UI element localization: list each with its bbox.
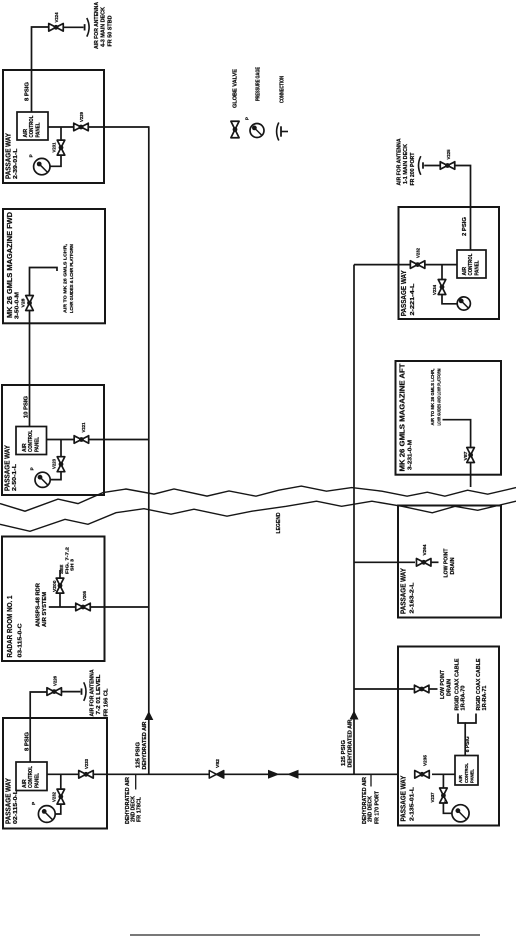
wire branch to V231 — [60, 127, 62, 141]
box passage way 2-135-01-L — [398, 647, 499, 826]
globe valve V264 — [416, 559, 431, 567]
svg-text:SH 3: SH 3 — [69, 559, 74, 571]
globe valve V229 — [74, 123, 89, 131]
svg-text:DRAIN: DRAIN — [450, 557, 456, 574]
svg-text:2-39-01-L: 2-39-01-L — [13, 148, 19, 179]
svg-text:AIR: AIR — [22, 779, 28, 788]
svg-text:2ND DECK: 2ND DECK — [368, 796, 374, 822]
svg-text:V229: V229 — [79, 112, 84, 122]
wire riser to V264 — [354, 561, 415, 563]
pressure gauge box3 — [35, 472, 50, 487]
globe valve V221 — [74, 436, 89, 444]
flow arrow right — [268, 770, 280, 779]
svg-text:AIR: AIR — [458, 774, 463, 783]
globe valve V224 — [49, 24, 64, 32]
box radar room no 1 — [2, 537, 105, 662]
globe valve V235 — [415, 771, 430, 779]
globe valve V205 — [76, 603, 91, 611]
wire V237 to gauge — [443, 803, 452, 814]
svg-text:RADAR ROOM NO. 1: RADAR ROOM NO. 1 — [5, 596, 14, 658]
break line upper — [0, 486, 516, 511]
svg-text:AIR FOR ANTENNA: AIR FOR ANTENNA — [396, 138, 402, 185]
svg-text:V82: V82 — [215, 759, 220, 768]
flow arrow up riser right — [350, 711, 359, 720]
air control panel box1 — [17, 112, 48, 140]
svg-text:V226: V226 — [53, 676, 58, 686]
wire V87 to break — [470, 462, 472, 487]
air control panel box5 — [16, 762, 47, 791]
wire branch to V234 — [441, 265, 443, 280]
svg-text:AIR FOR ANTENNA: AIR FOR ANTENNA — [94, 2, 100, 49]
svg-text:1R-RA-71: 1R-RA-71 — [482, 685, 488, 710]
svg-text:MK 26 GMLS MAGAZINE AFT: MK 26 GMLS MAGAZINE AFT — [398, 363, 407, 472]
svg-text:PANEL: PANEL — [474, 261, 480, 276]
wire ACP5 to valve V226 — [30, 692, 47, 762]
svg-text:CONTROL: CONTROL — [29, 116, 35, 138]
flow arrow up riser left — [144, 711, 153, 720]
svg-text:V232: V232 — [51, 792, 56, 802]
svg-text:1-1 MAIN DECK: 1-1 MAIN DECK — [403, 144, 409, 184]
svg-text:LOW POINT: LOW POINT — [440, 669, 446, 699]
wire V226 to connection — [62, 691, 81, 693]
svg-text:2-135-01-L: 2-135-01-L — [409, 786, 415, 821]
svg-text:8 PSIG: 8 PSIG — [25, 732, 31, 751]
svg-text:FR 200 PORT: FR 200 PORT — [410, 152, 416, 186]
wire panel to coax cable 71 — [465, 714, 476, 724]
svg-text:SEE: SEE — [59, 565, 64, 574]
svg-text:V205: V205 — [82, 591, 87, 601]
svg-text:PASSAGE WAY: PASSAGE WAY — [399, 775, 408, 821]
svg-text:8 PSIG: 8 PSIG — [25, 82, 31, 101]
globe valve V233 — [79, 771, 94, 779]
svg-text:AIR: AIR — [23, 129, 29, 138]
svg-text:CONTROL: CONTROL — [28, 766, 34, 788]
wire stub 2nd deck fr 178cl — [135, 774, 137, 789]
wire right riser 125 psig — [353, 265, 355, 775]
svg-text:MK 26 GMLS MAGAZINE FWD: MK 26 GMLS MAGAZINE FWD — [5, 212, 14, 318]
connection antenna 4-3 main deck — [85, 18, 90, 37]
svg-text:V87: V87 — [463, 451, 468, 460]
wire V200 upper stub — [59, 570, 61, 578]
svg-text:AIR SYSTEM: AIR SYSTEM — [42, 592, 48, 627]
svg-text:V231: V231 — [52, 142, 57, 152]
svg-text:PASSAGE WAY: PASSAGE WAY — [3, 445, 12, 491]
svg-text:CONTROL: CONTROL — [468, 254, 474, 276]
svg-text:CONTROL: CONTROL — [464, 763, 469, 783]
svg-text:LOW POINT: LOW POINT — [444, 548, 450, 578]
svg-text:V221: V221 — [81, 422, 86, 432]
box passage way 2-39-01-L — [3, 70, 104, 183]
svg-text:PASSAGE WAY: PASSAGE WAY — [399, 270, 408, 316]
svg-text:10 PSIG: 10 PSIG — [24, 396, 30, 418]
svg-text:02-115-0-L: 02-115-0-L — [13, 789, 19, 824]
svg-text:V28: V28 — [21, 298, 26, 307]
svg-text:DEHYDRATED AIR: DEHYDRATED AIR — [142, 721, 148, 769]
wire ACP1 to valve V224 — [32, 27, 50, 112]
connection antenna 7-2 01 level — [82, 682, 87, 701]
footer rule — [130, 934, 480, 936]
svg-text:2 PSIG: 2 PSIG — [462, 217, 468, 236]
svg-text:AIR TO MK 26 GMLS LCHR,: AIR TO MK 26 GMLS LCHR, — [430, 369, 435, 426]
svg-text:PASSAGE WAY: PASSAGE WAY — [399, 568, 408, 614]
wire V28 feed from box3 panel — [29, 308, 31, 427]
svg-text:PRESSURE GAGE: PRESSURE GAGE — [255, 67, 261, 101]
svg-text:DRAIN: DRAIN — [446, 679, 452, 696]
air control panel 2-135 — [455, 756, 478, 786]
wire branch to V232 box5 — [60, 774, 62, 789]
wire ACP1 output to drop line — [48, 126, 149, 128]
globe valve low point drain — [414, 685, 429, 693]
svg-text:2-50-1-L: 2-50-1-L — [12, 463, 18, 491]
svg-text:V235: V235 — [423, 755, 428, 766]
svg-text:AIR: AIR — [462, 267, 468, 276]
globe valve V225 — [440, 162, 455, 170]
svg-text:3-231-0-M: 3-231-0-M — [408, 440, 414, 470]
svg-text:V264: V264 — [422, 544, 427, 555]
globe valve V226 — [47, 688, 62, 696]
wire branch to V200 — [59, 593, 61, 607]
pressure gauge 2-135 — [452, 805, 469, 822]
svg-text:AIR: AIR — [22, 443, 28, 452]
svg-text:DEHYDRATED AIR: DEHYDRATED AIR — [348, 719, 354, 767]
svg-text:LCHR GUIDES & LCHR PLATFORM: LCHR GUIDES & LCHR PLATFORM — [69, 244, 75, 313]
wire V225 to connection — [424, 165, 440, 167]
svg-text:GLOBE VALVE: GLOBE VALVE — [233, 69, 239, 108]
wire V234 to gauge — [442, 294, 457, 304]
pressure gauge 2-221 — [457, 297, 470, 310]
svg-text:V233: V233 — [84, 759, 89, 769]
wire riser to box 2-221 panel — [354, 264, 457, 266]
svg-text:AIR FOR ANTENNA: AIR FOR ANTENNA — [90, 669, 96, 716]
connection antenna 1-1 main deck — [419, 156, 424, 175]
svg-text:LEGEND: LEGEND — [276, 512, 282, 533]
globe valve V232 — [410, 261, 425, 269]
svg-text:2-221-4-L: 2-221-4-L — [410, 283, 416, 316]
wire V224 to connection — [63, 26, 83, 28]
svg-text:FR 50 STBD: FR 50 STBD — [108, 15, 114, 46]
box passage way 2-221-4-L — [399, 207, 500, 319]
wire V223 to gauge — [50, 471, 61, 479]
svg-text:V223: V223 — [52, 459, 57, 469]
box passage way 02-115-0-L — [3, 718, 107, 829]
svg-text:125 PSIG: 125 PSIG — [341, 740, 347, 766]
globe valve V28 — [26, 296, 34, 311]
svg-text:1R-RA-70: 1R-RA-70 — [460, 685, 466, 710]
svg-text:PASSAGE WAY: PASSAGE WAY — [4, 778, 13, 824]
wire main 125 psig header — [47, 773, 398, 775]
svg-text:125 PSIG: 125 PSIG — [136, 742, 142, 768]
wire V28 to launcher stub — [30, 268, 58, 298]
svg-text:PANEL: PANEL — [34, 437, 40, 452]
svg-text:AIR TO MK 26 GMLS LCHR,: AIR TO MK 26 GMLS LCHR, — [63, 243, 69, 313]
svg-text:V237: V237 — [430, 792, 435, 802]
wire stub 2nd deck fr 170 port — [370, 774, 372, 786]
legend globe valve symbol — [231, 121, 239, 138]
wire low point drain stub — [430, 688, 438, 690]
svg-text:V225: V225 — [446, 149, 451, 159]
box mk 26 gmls magazine fwd — [3, 209, 105, 323]
wire branch to V237 — [442, 774, 444, 788]
svg-text:2-163-2-L: 2-163-2-L — [409, 582, 415, 614]
wire branch to V223 — [60, 440, 62, 458]
wire V235 to panel — [432, 773, 455, 775]
air control panel 2-221 — [457, 250, 486, 278]
svg-text:PANEL: PANEL — [34, 773, 40, 788]
air control panel box3 — [16, 427, 47, 455]
wire main riser 125 psig — [148, 126, 150, 774]
svg-text:7-2 01 LEVEL: 7-2 01 LEVEL — [96, 674, 102, 715]
svg-text:FR 178CL: FR 178CL — [136, 796, 142, 822]
pressure gauge box5 — [38, 806, 55, 823]
wire V264 stub — [432, 561, 439, 563]
svg-text:V232: V232 — [416, 248, 421, 258]
svg-text:V234: V234 — [432, 285, 437, 295]
globe valve V223 — [57, 457, 65, 472]
svg-text:LCHR GUIDES AND LCHR PLATFORM: LCHR GUIDES AND LCHR PLATFORM — [436, 368, 441, 425]
globe valve V87 — [467, 448, 475, 463]
svg-text:V224: V224 — [54, 12, 59, 22]
svg-text:PASSAGE WAY: PASSAGE WAY — [4, 133, 13, 179]
globe valve V232 box5 — [57, 789, 65, 804]
wire launcher stub to V87 — [443, 420, 471, 448]
globe valve V237 — [440, 788, 448, 803]
wire V232 to gauge box5 — [56, 804, 61, 814]
globe valve V234 — [438, 280, 446, 295]
svg-text:PANEL: PANEL — [470, 769, 475, 783]
svg-text:4-3 MAIN DECK: 4-3 MAIN DECK — [100, 7, 106, 47]
pressure gauge box1 — [34, 158, 50, 174]
wire low point drain branch — [354, 688, 414, 690]
svg-text:03-115-0-C: 03-115-0-C — [18, 623, 24, 658]
break line lower — [0, 501, 516, 531]
box mk 26 gmls magazine aft — [396, 361, 502, 475]
box passage way 2-50-1-L — [2, 385, 104, 495]
wire ACP221 to valve V225 — [455, 166, 470, 251]
svg-text:FR 170 PORT: FR 170 PORT — [374, 790, 380, 824]
legend pressure gauge symbol — [250, 124, 264, 138]
wire ACP3 output to riser — [47, 439, 149, 441]
svg-text:AN/SPS-48 RDR: AN/SPS-48 RDR — [36, 583, 42, 627]
flow arrow left — [287, 770, 299, 779]
globe valve V82 — [209, 771, 224, 779]
wire panel to coax cable 70 — [458, 714, 465, 756]
globe valve V231 — [57, 140, 65, 155]
globe valve V200 — [56, 578, 64, 593]
box passage way 2-163-2-L — [398, 506, 501, 618]
wire radar room to riser — [49, 606, 149, 608]
legend connection symbol — [277, 123, 288, 141]
svg-text:FR 166 CL: FR 166 CL — [103, 688, 109, 717]
svg-text:PANEL: PANEL — [35, 123, 41, 138]
wire V231 to gauge — [49, 155, 61, 167]
svg-text:CONNECTION: CONNECTION — [279, 76, 285, 103]
svg-text:V200: V200 — [52, 580, 57, 592]
svg-text:P: P — [245, 117, 250, 120]
svg-text:CONTROL: CONTROL — [28, 430, 34, 452]
